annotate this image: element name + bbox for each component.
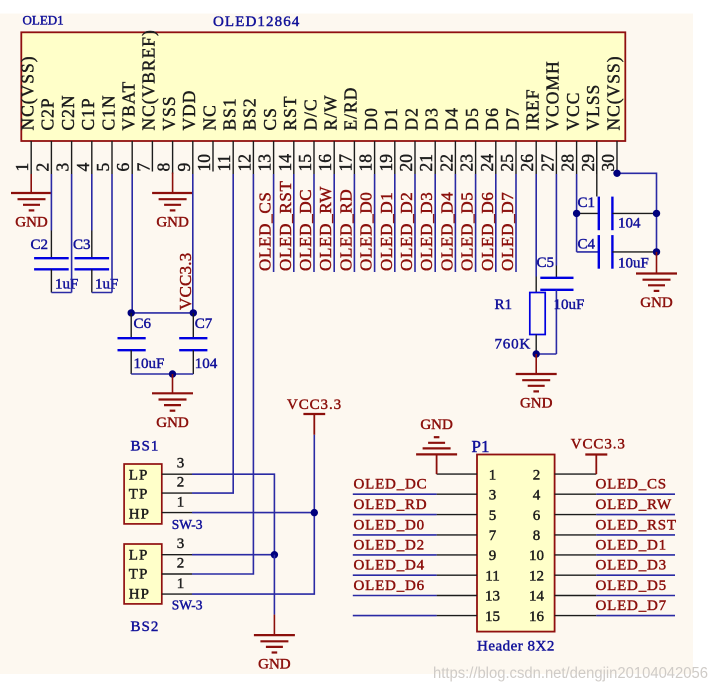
svg-text:C3: C3 [73,237,91,253]
svg-text:OLED_RD: OLED_RD [354,497,428,513]
wire pin 30 to right rail [617,173,657,252]
net label OLED_D6 [354,578,425,594]
pin number 1 [12,163,32,172]
svg-text:8: 8 [533,528,541,544]
junction (pin6/C6) [128,309,135,316]
designator BS1 [131,439,160,455]
pin name C2N (pin 3) [58,94,78,130]
svg-text:GND: GND [520,396,553,412]
svg-text:D5: D5 [462,107,482,130]
ground GND (R1/C5) [516,374,557,412]
wire pin 18 (OLED_D0) [374,174,376,272]
svg-text:NC(VSS): NC(VSS) [603,55,623,130]
pin 19 stub [394,141,396,174]
svg-text:20: 20 [396,154,416,172]
pin name D6 (pin 24) [482,107,502,130]
svg-text:2: 2 [32,163,52,172]
wire P1 pin 12 [596,574,675,576]
pin number 14 [275,154,295,172]
wire pin 16 (OLED_RW) [333,174,335,272]
pin number 30 [598,154,618,172]
net label OLED_RD [336,189,355,271]
svg-text:OLED_D0: OLED_D0 [357,192,376,272]
value 1uF (C3) [95,277,118,293]
net label OLED_CS [596,477,667,493]
svg-text:1uF: 1uF [95,277,118,293]
svg-text:Header 8X2: Header 8X2 [477,639,555,655]
svg-text:BS1: BS1 [131,439,160,455]
pin 3 stub [71,141,73,174]
svg-text:9: 9 [174,163,194,172]
wire pin 27 (VCOMH) [555,174,557,266]
svg-text:NC(VBREF): NC(VBREF) [139,29,159,130]
P1 pin numbers 1 2 [489,467,541,483]
wire pin 13 (OLED_CS) [273,174,275,272]
pin 11 stub [232,141,234,174]
pin number 23 [457,154,477,172]
svg-text:C6: C6 [134,316,152,332]
value 1uF (C2) [55,277,78,293]
net label OLED_DC [354,477,428,493]
pin number 9 [174,163,194,172]
svg-text:18: 18 [356,154,376,172]
pin number 7 [133,163,153,172]
svg-text:4: 4 [73,163,93,172]
comment SW-3 (BS2) [172,598,203,613]
capacitor C7 [173,313,208,374]
svg-text:OLED_D2: OLED_D2 [354,537,425,553]
svg-text:OLED_D0: OLED_D0 [354,517,425,533]
wire P1 pin 10 [596,554,675,556]
svg-text:OLED_D7: OLED_D7 [498,192,517,272]
pin name D5 (pin 23) [462,107,482,130]
svg-text:OLED_D5: OLED_D5 [596,578,667,594]
svg-text:VCOMH: VCOMH [543,60,563,130]
pin 2 stub [50,141,52,174]
svg-text:16: 16 [529,609,545,625]
pin number 11 [214,155,234,172]
wire R1 junction to ground [535,354,537,374]
wire pin 23 (OLED_D5) [475,174,477,272]
pin number 6 [113,163,133,172]
svg-text:14: 14 [529,589,545,605]
pin number 18 [356,154,376,172]
svg-text:2: 2 [177,556,185,572]
designator C1 [578,195,596,211]
pin number 22 [436,154,456,172]
net label OLED_D3 [417,192,436,272]
svg-text:24: 24 [477,154,497,172]
wire pin 26 (IREF) [535,174,537,293]
svg-text:D0: D0 [361,107,381,130]
designator C6 [134,316,152,332]
svg-text:1uF: 1uF [55,277,78,293]
pin 7 stub [151,141,153,172]
svg-text:IREF: IREF [523,89,543,131]
pin 15 stub [313,141,315,174]
net label OLED_D2 [354,537,425,553]
pin 26 stub [535,141,537,174]
P1 pin 6 stub [555,514,597,516]
svg-text:OLED_DC: OLED_DC [296,189,315,271]
switch BS2 body [124,544,162,604]
wire P1 pin 11 [353,574,437,576]
pin 21 stub [434,141,436,174]
svg-text:1: 1 [12,163,32,172]
svg-text:3: 3 [53,163,73,172]
pin name BS2 (pin 12) [240,97,260,130]
resistor R1 [530,293,545,355]
svg-text:TP: TP [129,487,149,503]
P1 pin 2 stub [555,473,597,475]
pin number 12 [234,154,254,172]
pin 23 stub [475,141,477,174]
svg-text:10: 10 [194,154,214,172]
comment OLED12864 [213,14,300,30]
P1 pin numbers 15 16 [485,609,545,625]
P1 pin numbers 13 14 [485,589,545,605]
svg-text:C5: C5 [537,255,555,271]
svg-text:OLED_CS: OLED_CS [256,191,275,271]
svg-text:OLED_D7: OLED_D7 [596,598,667,614]
pin name D4 (pin 22) [442,107,462,130]
svg-text:12: 12 [234,154,254,172]
watermark text [433,665,708,682]
BS1 pin numbers 3 2 1 [177,456,185,511]
designator C2 [31,237,49,253]
wire pin 22 (OLED_D4) [454,174,456,272]
P1 pin 13 stub [437,595,477,597]
svg-text:28: 28 [558,154,578,172]
pin name BS1 (pin 11) [220,97,240,130]
wire pin 11 (BS1) to switch BS1 pin 2 [192,174,233,493]
pin name VCC (pin 28) [563,92,583,131]
ground GND (C1/C4) [636,274,677,312]
pin number 3 [53,163,73,172]
pin name D3 (pin 21) [422,107,442,130]
svg-text:C7: C7 [195,316,213,332]
pin name D0 (pin 18) [361,107,381,130]
svg-text:OLED_CS: OLED_CS [596,477,667,493]
pin name D7 (pin 25) [502,107,522,130]
pin number 16 [315,154,335,172]
svg-text:C2N: C2N [58,94,78,130]
pin number 20 [396,154,416,172]
wire pin 20 (OLED_D2) [414,174,416,272]
pin 10 stub [212,141,214,172]
junction (C6/C7 to ground) [169,370,176,377]
wire P1 pin 13 [353,595,437,597]
P1 pin 11 stub [437,574,477,576]
pin 12 stub [252,141,254,174]
wire pin 19 (OLED_D1) [394,174,396,272]
pin name R/W (pin 16) [321,94,341,130]
power VCC3.3 (P1 pin 2) [571,436,626,474]
svg-text:7: 7 [133,163,153,172]
power VCC3.3 (switch rail) [287,397,342,435]
svg-text:10uF: 10uF [134,356,165,372]
svg-text:VLSS: VLSS [583,84,603,131]
svg-text:23: 23 [457,154,477,172]
svg-text:NC: NC [199,104,219,130]
pin 17 stub [353,141,355,174]
wire pin 2 [50,174,52,231]
wire BS1 pin 3 to gnd rail [192,474,274,555]
svg-text:D7: D7 [502,107,522,130]
BS1 pin stubs [162,474,192,512]
pin number 10 [194,154,214,172]
svg-text:OLED_D2: OLED_D2 [397,192,416,272]
net label VCC3.3 (on pin 9 wire) [176,253,195,310]
pin 29 stub [596,141,598,174]
svg-text:21: 21 [416,154,436,172]
svg-text:LP: LP [129,468,149,484]
ground GND (BS switches) [254,635,295,673]
net label OLED_D3 [596,558,667,574]
svg-text:13: 13 [255,154,275,172]
net label OLED_D5 [458,192,477,271]
svg-text:104: 104 [618,216,641,232]
junction (VCC rail / BS1 pin1) [311,509,318,516]
junction (BS2 pin3 / gnd rail) [271,551,278,558]
svg-text:7: 7 [489,528,497,544]
pin name NC(VBREF) (pin 7) [139,29,159,130]
svg-text:11: 11 [214,155,234,172]
P1 pin 14 stub [555,595,597,597]
svg-text:OLED1: OLED1 [23,13,64,28]
svg-text:SW-3: SW-3 [172,517,203,532]
wire P1 pin 15 [353,615,437,617]
wire P1 pin 14 [596,595,675,597]
wire pin 15 (OLED_DC) [313,174,315,272]
svg-text:LP: LP [129,548,149,564]
svg-text:17: 17 [335,154,355,172]
net label OLED_D1 [596,537,667,553]
junction (C1 right) [653,210,660,217]
designator R1 [495,297,513,313]
svg-text:C4: C4 [578,237,596,253]
svg-text:6: 6 [113,163,133,172]
svg-text:VCC3.3: VCC3.3 [287,397,342,413]
wire BS2 pin 3 to gnd rail [192,554,274,556]
svg-text:OLED12864: OLED12864 [213,14,300,30]
BS1 pin names LP TP HP [129,468,150,523]
svg-text:15: 15 [485,609,500,625]
svg-text:3: 3 [177,456,185,472]
svg-text:GND: GND [156,215,189,231]
svg-text:9: 9 [489,548,497,564]
value 10uF (C6) [134,356,165,372]
P1 pin numbers 3 4 [489,487,541,503]
pin 18 stub [374,141,376,174]
svg-text:SW-3: SW-3 [172,598,203,613]
pin number 5 [93,163,113,172]
designator C5 [537,255,555,271]
P1 pin 3 stub [437,493,477,495]
capacitor C5 [536,266,573,355]
svg-text:BS1: BS1 [220,97,240,130]
pin name D/C (pin 15) [300,98,320,130]
svg-text:https://blog.csdn.net/dengjin2: https://blog.csdn.net/dengjin20104042056 [433,665,708,682]
pin 6 stub [131,141,133,174]
value 104 (C1) [618,216,641,232]
pin name RST (pin 14) [280,95,300,130]
svg-text:6: 6 [533,508,541,524]
net label OLED_RD [354,497,428,513]
svg-text:R1: R1 [495,297,513,313]
pin name E/RD (pin 17) [341,87,361,131]
svg-text:R/W: R/W [321,94,341,130]
BS2 pin numbers 3 2 1 [177,536,185,592]
svg-text:OLED_RW: OLED_RW [316,186,335,271]
wire pin 8 to ground [172,173,174,194]
svg-text:10: 10 [529,548,544,564]
P1 pin 9 stub [437,554,477,556]
net label OLED_CS [256,191,275,271]
svg-text:OLED_RST: OLED_RST [596,517,677,533]
svg-text:VBAT: VBAT [119,81,139,131]
svg-text:15: 15 [295,154,315,172]
pin 16 stub [333,141,335,174]
pin number 21 [416,154,436,172]
pin name CS (pin 13) [260,107,280,130]
svg-text:GND: GND [15,215,48,231]
pin name D2 (pin 20) [401,107,421,130]
pin number 28 [558,154,578,172]
junction (pin9/C7) [190,309,197,316]
pin 13 stub [273,141,275,174]
svg-text:OLED_D6: OLED_D6 [478,192,497,272]
svg-text:OLED_D4: OLED_D4 [437,191,456,271]
svg-text:TP: TP [129,567,149,583]
svg-text:30: 30 [598,154,618,172]
pin number 27 [537,154,557,172]
svg-text:OLED_D1: OLED_D1 [377,192,396,272]
pin name NC(VSS) (pin 30) [603,55,623,130]
pin 4 stub [91,141,93,174]
pin 14 stub [293,141,295,174]
net label OLED_RW [596,497,672,513]
pin number 4 [73,163,93,172]
wire gnd rail down [273,555,275,635]
capacitor C6 [118,313,173,374]
comment Header 8X2 [477,639,555,655]
svg-text:C2: C2 [31,237,49,253]
pin name VSS (pin 8) [159,95,179,130]
svg-text:VSS: VSS [159,95,179,130]
net label OLED_D1 [377,192,396,272]
wire pin 9 (VDD) [192,174,194,313]
svg-text:C2P: C2P [38,97,58,130]
pin number 25 [497,154,517,172]
P1 pin 8 stub [555,534,597,536]
wire P1 pin 8 [596,534,675,536]
svg-text:D/C: D/C [300,98,320,130]
designator C7 [195,316,213,332]
svg-text:14: 14 [275,154,295,172]
svg-text:29: 29 [578,154,598,172]
svg-text:104: 104 [195,356,218,372]
net label OLED_D7 [498,192,517,272]
net label OLED_D5 [596,578,667,594]
junction (pin 30) [613,170,620,177]
junction (pin28/C1) [573,210,580,217]
svg-text:22: 22 [436,154,456,172]
pin name D1 (pin 19) [381,107,401,130]
svg-text:GND: GND [420,417,453,433]
wire P1 pin 5 [353,514,437,516]
net label OLED_D4 [354,558,425,574]
pin name C1P (pin 4) [78,97,98,130]
wire pin 14 (OLED_RST) [293,174,295,272]
svg-text:5: 5 [93,163,113,172]
svg-text:RST: RST [280,95,300,130]
svg-text:C1N: C1N [98,94,118,130]
pin 28 stub [576,141,578,174]
pin number 29 [578,154,598,172]
comment SW-3 (BS1) [172,517,203,532]
pin name IREF (pin 26) [523,89,543,131]
svg-text:C1: C1 [578,195,596,211]
pin number 17 [335,154,355,172]
wire P1 pin 6 [596,514,675,516]
net label OLED_D6 [478,192,497,272]
svg-text:OLED_D3: OLED_D3 [596,558,667,574]
svg-text:OLED_D6: OLED_D6 [354,578,425,594]
capacitor C2 [34,231,69,293]
svg-text:OLED_RD: OLED_RD [336,189,355,271]
wire P1 pin 16 [596,615,675,617]
capacitor C3 [75,231,110,293]
svg-text:HP: HP [129,587,150,603]
net label OLED_D7 [596,598,667,614]
P1 pin 7 stub [437,534,477,536]
svg-text:12: 12 [529,568,544,584]
wire pin 21 (OLED_D3) [434,174,436,272]
pin 8 stub [172,141,174,174]
pin 5 stub [111,141,113,174]
svg-text:13: 13 [485,589,500,605]
pin number 26 [517,154,537,172]
net label OLED_RW [316,186,335,271]
designator OLED1 [23,13,64,28]
svg-text:OLED_D3: OLED_D3 [417,192,436,272]
svg-text:C1P: C1P [78,97,98,130]
wire pin 28 (VCC) [576,174,578,252]
svg-text:1: 1 [489,467,497,483]
svg-text:D2: D2 [401,107,421,130]
pin number 15 [295,154,315,172]
pin 20 stub [414,141,416,174]
pin 22 stub [454,141,456,174]
designator BS2 [131,619,160,635]
svg-text:OLED_RW: OLED_RW [596,497,672,513]
P1 pin 5 stub [437,514,477,516]
pin name NC(VSS) (pin 1) [18,55,38,130]
svg-text:1: 1 [177,576,185,592]
junction (C4 right) [653,248,660,255]
svg-text:4: 4 [533,487,541,503]
pin 27 stub [555,141,557,174]
pin number 8 [154,163,174,172]
wire VCC rail down to BS1 pin1 [313,435,315,513]
wire right rail to ground [656,252,658,274]
wire pin 4 [91,174,93,231]
switch BS1 body [124,464,162,524]
ground GND (pins 1-2) [11,193,52,231]
P1 pin 12 stub [555,574,597,576]
ground GND (C6/C7) [152,393,193,431]
